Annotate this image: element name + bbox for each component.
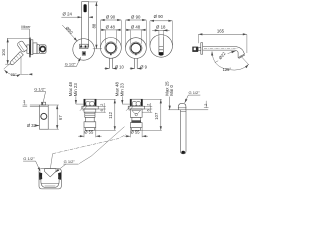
dimension diameter 24 [61,12,92,18]
svg-text:2: 2 [146,104,150,106]
svg-text:Ø 48: Ø 48 [106,24,116,29]
svg-text:Ø 90: Ø 90 [154,14,164,19]
dimension diameter 32 [27,123,39,128]
svg-text:Min 23: Min 23 [73,83,78,97]
shower arm tube [203,47,245,54]
dimension 88 [89,2,102,49]
wand tip [181,151,185,154]
shower arm dimension 165 [198,29,247,53]
section 1 body [84,109,96,112]
section 2 wall hatch [126,104,133,111]
section 2 body [130,109,142,117]
wand G 1/2 label [185,90,201,103]
svg-text:Ø 90: Ø 90 [106,14,116,19]
wand Max 25 / Min 0 [164,81,174,110]
svg-text:G 1/2": G 1/2" [64,159,76,164]
dimension diameter 90 C [150,14,173,45]
dimension 2 (union) [23,100,28,107]
bottom view body [41,176,59,187]
section 1 housing [84,99,96,106]
shower arm wall flange nut [192,47,198,52]
dimension diameter 48 A [101,24,121,43]
svg-text:G 1/2": G 1/2" [23,156,35,161]
wand fitting [179,103,186,110]
bottom view side seals [39,172,42,180]
bottom view centerline (dash-dot) [50,154,52,169]
dimension 25 degrees [4,57,29,77]
outlet B ring [131,43,141,53]
section 1 small dims 2 and 6 [96,103,106,113]
mixer knob [39,45,46,54]
svg-text:2: 2 [204,104,208,106]
svg-text:G 1/2": G 1/2" [34,87,46,92]
bottom view G 1/2 left label [23,156,40,171]
svg-text:Min 0: Min 0 [169,85,174,96]
svg-text:165: 165 [217,29,225,34]
svg-text:104: 104 [1,48,6,56]
section 1 dimension 112 [94,99,115,130]
outlet A junction [110,53,112,55]
section 2 dimension diameter 55 [125,128,148,137]
section 1 Max 48 / Min 23 [68,81,84,104]
dimension diameter 10 [104,64,124,69]
mixer body step [37,45,39,54]
wall union nipple [41,102,45,105]
mixer wall plate [31,40,33,55]
svg-text:6: 6 [100,109,104,111]
shower arm thread stub [198,48,201,51]
bottom view leader to section [79,127,124,164]
handshower wand [82,2,89,47]
svg-text:112: 112 [108,111,113,118]
section 2 Max 48 / Min 23 [115,81,131,104]
dimension 67 [48,105,63,129]
wall union cylinder [39,105,48,129]
mixer lever down position (hatched) [10,52,23,65]
svg-text:Ø 24: Ø 24 [63,12,73,17]
svg-text:Ø 55: Ø 55 [131,130,141,135]
section 2 supply circles [132,101,137,106]
bottom view escutcheon [39,169,61,189]
svg-text:2: 2 [100,104,104,106]
svg-text:67: 67 [58,115,63,120]
wand dimension 2 [204,101,209,108]
holder clamp bracket [80,44,88,48]
mixer label [21,25,31,39]
svg-text:107: 107 [154,112,159,120]
dimension 125 degrees [212,51,249,72]
svg-text:Mixer: Mixer [21,25,31,29]
dimension diameter 22 [215,51,236,63]
mixer lever grip [17,40,28,52]
svg-text:Ø 90: Ø 90 [131,14,141,19]
section 2 housing [130,99,142,106]
svg-text:G 1/2": G 1/2" [65,62,77,67]
svg-text:Ø90: Ø90 [64,26,74,36]
outlet A ring [106,43,116,53]
dimension diameter 90 (holder, diagonal) [62,25,77,41]
section 1 wall hatch [80,104,87,111]
outlet B escutcheon circle [125,38,146,59]
mixer body [33,43,37,54]
outlet A pipe [109,58,112,68]
spout escutcheon circle [150,35,173,58]
svg-text:Ø 9: Ø 9 [140,64,147,69]
shower arm centerline [204,47,238,49]
wand wall line [168,109,208,111]
dimension 104 [1,38,29,64]
handshower slot [84,4,87,12]
dimension diameter 90 A [101,14,122,47]
wall union wall lines [30,105,40,107]
svg-text:Min 23: Min 23 [119,83,124,97]
svg-text:88: 88 [92,23,97,28]
svg-text:G 1/2": G 1/2" [189,90,201,95]
section 1 supply circles [86,101,91,106]
svg-text:Ø 55: Ø 55 [84,130,94,135]
mixer lever hub [27,45,29,53]
wall union side hole [41,113,47,119]
svg-text:Ø 48: Ø 48 [131,24,141,29]
bottom view lever end [44,169,56,177]
shower arm end face [238,54,245,59]
section 1 escutcheon plate [82,106,98,109]
section 2 escutcheon plate [128,106,144,109]
outlet A escutcheon circle [101,38,122,59]
G 1/2 label (holder) [65,57,81,66]
dimension diameter 90 B [126,14,147,47]
mixer escutcheon edge [29,38,30,58]
shower arm wall plate [201,43,203,55]
holder outlet [82,52,85,56]
outlet B pipe [135,59,138,69]
svg-text:2: 2 [23,100,25,104]
section 2 small dims 2 and 6 [142,103,152,113]
wand tube [181,110,187,154]
spout tube [159,36,163,55]
handshower holder circle [73,39,95,61]
svg-text:6: 6 [146,109,150,111]
svg-text:25°: 25° [11,72,17,77]
dimension diameter 48 B [126,24,146,43]
dimension diameter 9 [130,64,148,69]
spout tip [159,52,164,56]
svg-text:125°: 125° [223,67,232,72]
svg-text:Ø22: Ø22 [218,51,227,61]
dimension diameter 18 [152,24,169,36]
section 1 dimension diameter 55 [78,128,101,137]
svg-text:Ø 18: Ø 18 [156,24,166,29]
svg-text:Ø 10: Ø 10 [115,64,125,69]
G 1/2 label (union) [34,87,46,102]
section 2 dimension 107 [141,99,162,130]
bottom view G 1/2 right label [55,159,78,172]
mixer knob ring [40,47,45,52]
